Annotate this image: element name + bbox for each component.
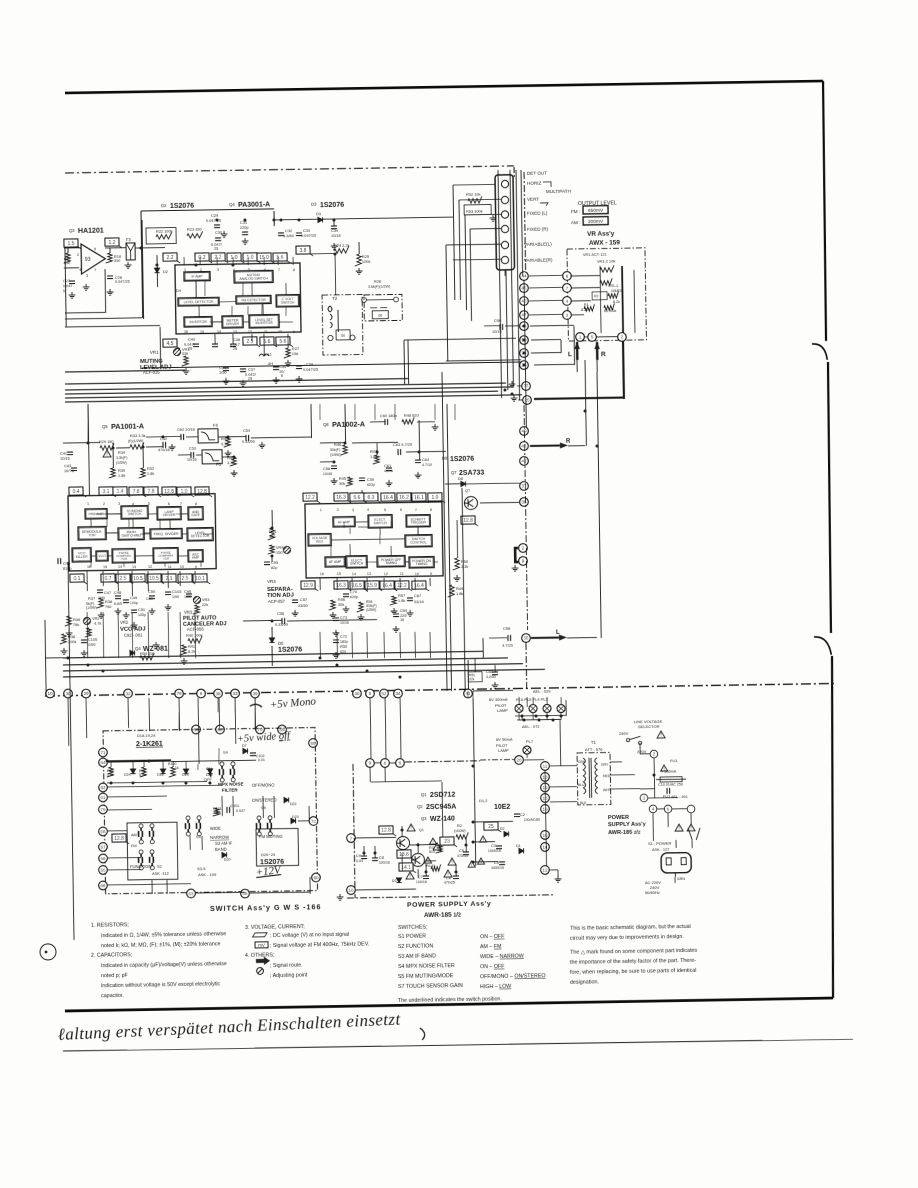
bracket vert	[540, 203, 548, 206]
svg-text:2SD712: 2SD712	[430, 792, 456, 799]
wire	[271, 510, 273, 528]
node 5	[366, 689, 375, 698]
svg-text:SWITCH: SWITCH	[373, 521, 387, 525]
wire	[287, 620, 377, 621]
wire	[298, 820, 309, 822]
voltage label 1.5	[64, 239, 81, 249]
pin wire	[86, 494, 88, 497]
svg-text:C27: C27	[63, 279, 70, 283]
wire ic internal	[212, 321, 222, 323]
diode D49	[207, 769, 212, 774]
node 69	[278, 725, 287, 734]
wire F3 out	[135, 247, 165, 249]
resistor R2 power	[456, 832, 468, 839]
svg-text:58: 58	[100, 829, 106, 834]
wire	[243, 619, 282, 622]
svg-text:4. OTHERS;: 4. OTHERS;	[245, 953, 275, 959]
voltage label 16.4	[412, 581, 429, 591]
svg-text:; DC voltage (V) at no input s: ; DC voltage (V) at no input signal	[270, 932, 349, 939]
svg-text:BLK: BLK	[580, 801, 587, 805]
ground	[511, 395, 518, 401]
wire lamp stub	[560, 697, 562, 705]
wire	[358, 242, 360, 254]
connector pin circle	[501, 225, 508, 232]
svg-text:16: 16	[400, 618, 404, 622]
capacitor C68	[508, 635, 511, 641]
node 79	[99, 805, 108, 814]
svg-text:ANALOG SWITCH: ANALOG SWITCH	[239, 276, 268, 280]
voltage label 12.8	[112, 834, 129, 844]
voltage label 2.5	[178, 574, 195, 584]
wire ic	[148, 513, 157, 515]
connector pin circle	[501, 256, 508, 263]
safety mark fuse	[661, 765, 668, 771]
diode D2	[154, 268, 159, 273]
capacitor C32	[278, 233, 284, 236]
wire	[571, 300, 591, 302]
wire	[320, 461, 334, 463]
spine below node 35	[525, 643, 528, 688]
resistor R38	[60, 634, 67, 644]
wire ic extra	[85, 277, 474, 772]
svg-text:39: 39	[252, 691, 258, 696]
wire	[455, 864, 457, 876]
wire	[571, 287, 600, 289]
wire lamp stub	[518, 697, 520, 705]
wire	[104, 269, 107, 313]
svg-text:ON – OFF: ON – OFF	[480, 964, 505, 970]
svg-text:FREQ. DIVIDER: FREQ. DIVIDER	[154, 532, 180, 536]
wire	[251, 334, 253, 341]
wire	[151, 880, 153, 894]
wire t1	[550, 765, 577, 767]
svg-text:C53: C53	[189, 446, 196, 451]
wire	[453, 258, 501, 261]
wire ic	[405, 561, 409, 563]
wire long vertical x462	[462, 488, 465, 691]
wire drop	[147, 612, 150, 658]
svg-text:1k: 1k	[175, 766, 179, 770]
node 20	[515, 756, 524, 765]
block ASC AMP	[188, 550, 203, 562]
voltage label 10.1	[193, 574, 210, 584]
svg-text:0.33/50: 0.33/50	[242, 439, 256, 444]
wire vertical x446	[446, 245, 448, 361]
wire ic	[108, 555, 112, 557]
svg-text:25: 25	[248, 376, 252, 381]
svg-text:16: 16	[87, 565, 91, 569]
svg-text:35: 35	[523, 636, 529, 641]
R53 box	[464, 205, 491, 215]
svg-text:14: 14	[118, 565, 122, 569]
svg-text:4.7/10: 4.7/10	[422, 463, 432, 467]
node 71	[99, 748, 108, 757]
svg-text:100/16: 100/16	[416, 880, 427, 884]
svg-text:R55: R55	[340, 644, 347, 649]
wire	[417, 421, 435, 423]
svg-text:22k: 22k	[469, 677, 475, 681]
svg-text:3: 3	[118, 502, 120, 506]
svg-text:3.1: 3.1	[103, 489, 110, 495]
wire	[117, 571, 119, 591]
wire to node 37	[466, 482, 520, 485]
wire y340 to node 50	[404, 338, 516, 340]
svg-text:20: 20	[516, 758, 522, 763]
svg-text:Q3: Q3	[69, 228, 75, 233]
svg-text:C6: C6	[446, 875, 451, 880]
svg-text:10: 10	[348, 888, 354, 893]
switch S1	[688, 828, 700, 840]
svg-text:TIMING: TIMING	[385, 561, 397, 565]
voltage label 2.2	[211, 253, 228, 263]
svg-text:R2: R2	[594, 294, 599, 298]
wire	[107, 856, 141, 859]
capacitor C54	[246, 435, 249, 441]
voltage label 1.2	[105, 238, 122, 248]
resistor R46	[341, 445, 348, 455]
voltage label 5.6	[350, 493, 367, 503]
pin wire	[147, 494, 149, 497]
svg-text:100/AC/80: 100/AC/80	[524, 818, 540, 822]
svg-text:PL7: PL7	[526, 739, 534, 744]
svg-text:VARIABLE(L): VARIABLE(L)	[524, 242, 552, 247]
svg-text:OFF/MONO: OFF/MONO	[252, 783, 275, 788]
bracket horiz	[543, 182, 551, 187]
ground	[273, 377, 280, 383]
node 7	[563, 284, 572, 293]
wire ic	[178, 555, 188, 557]
voltage label 16.4	[381, 493, 398, 503]
svg-text:650mV: 650mV	[588, 208, 604, 214]
svg-text:29: 29	[83, 691, 89, 696]
svg-text:Q2: Q2	[417, 804, 423, 809]
svg-text:2. CAPACITORS;: 2. CAPACITORS;	[91, 952, 132, 959]
svg-text:CONTROL: CONTROL	[410, 541, 427, 545]
svg-text:S7 TOUCH SENSOR GAIN: S7 TOUCH SENSOR GAIN	[398, 983, 463, 990]
wire node25 bold horizontal	[534, 398, 623, 399]
node 66	[192, 725, 201, 734]
wire node link	[529, 286, 563, 289]
svg-text:1.8k: 1.8k	[456, 591, 463, 596]
wire node41 up	[467, 660, 469, 690]
capacitor CH01	[227, 807, 230, 813]
svg-text:5.6: 5.6	[353, 495, 360, 501]
node 42	[520, 457, 529, 466]
svg-text:VR4: VR4	[267, 579, 276, 584]
svg-text:R59 330: R59 330	[140, 651, 156, 656]
svg-text:R: R	[601, 351, 606, 358]
wire	[369, 767, 371, 782]
svg-text:BLU: BLU	[578, 783, 585, 787]
svg-text:AF AMP: AF AMP	[338, 520, 351, 524]
svg-text:S1 POWER: S1 POWER	[398, 934, 426, 940]
svg-text:R33 3.3k: R33 3.3k	[130, 433, 146, 438]
svg-text:S3 AM IF BAND: S3 AM IF BAND	[398, 953, 436, 960]
svg-text:Q1: Q1	[421, 792, 427, 797]
wire	[406, 450, 446, 453]
resistor R56	[329, 600, 336, 610]
svg-text:R23 330: R23 330	[187, 227, 203, 232]
paper edge line below page	[63, 1039, 853, 1052]
wire t1 r	[610, 774, 635, 776]
node 43	[520, 442, 529, 451]
wire node link	[529, 313, 563, 316]
node 1	[576, 333, 585, 342]
svg-text:6: 6	[168, 502, 170, 506]
svg-text:56: 56	[100, 856, 106, 861]
svg-text:C8: C8	[379, 855, 384, 860]
svg-text:D18,19,24: D18,19,24	[137, 733, 156, 738]
svg-text:FM MUTING: FM MUTING	[259, 834, 283, 839]
wire	[116, 447, 130, 449]
svg-text:R: R	[566, 439, 571, 445]
svg-text:AMP: AMP	[192, 556, 200, 560]
svg-text:HA1201: HA1201	[78, 228, 104, 235]
wire	[107, 884, 191, 885]
svg-text:BAND: BAND	[215, 847, 227, 852]
block AF AMP 2	[325, 557, 345, 567]
wire	[189, 836, 191, 850]
resistor R42	[224, 437, 231, 447]
capacitor C64	[415, 460, 421, 463]
wire	[107, 868, 141, 871]
wire ic	[91, 555, 96, 557]
wire	[250, 891, 310, 894]
svg-text:0.2: 0.2	[199, 255, 206, 261]
ground	[333, 630, 340, 636]
voltage label 0.2	[195, 253, 212, 263]
svg-text:AM: AM	[131, 832, 137, 837]
wire	[132, 761, 134, 769]
svg-text:S1 ; POWER: S1 ; POWER	[648, 841, 672, 846]
node 10	[46, 689, 55, 698]
safety mark R29	[103, 450, 111, 457]
capacitor C31	[242, 232, 248, 235]
svg-text:11: 11	[264, 330, 268, 334]
svg-text:D20~23: D20~23	[261, 852, 276, 857]
wire	[584, 336, 588, 338]
capacitor C1	[667, 788, 670, 794]
node 77	[522, 382, 531, 391]
wire	[672, 808, 687, 810]
resistor VR3	[193, 605, 200, 614]
svg-text:42: 42	[521, 459, 527, 464]
diode D1 ps	[519, 848, 524, 853]
wire channel 1	[63, 651, 483, 658]
assembly boundary corner	[513, 167, 515, 177]
wire	[376, 443, 378, 455]
resistor R30	[109, 468, 116, 478]
block LEVEL SET INVERTOR	[249, 315, 279, 328]
block VOLTAGE REG	[308, 534, 331, 546]
svg-text:DRIVER: DRIVER	[163, 513, 176, 517]
pin wire	[216, 257, 218, 265]
svg-text:AF AMP: AF AMP	[329, 560, 342, 564]
block FM DETECTOR	[236, 295, 271, 304]
svg-text:DRIVER: DRIVER	[226, 322, 239, 326]
svg-text:AWR-185 1/2: AWR-185 1/2	[424, 911, 461, 919]
wire	[109, 248, 111, 253]
wire	[336, 578, 338, 590]
node 2	[519, 544, 528, 553]
svg-text:T1: T1	[591, 740, 597, 745]
wire drop	[218, 698, 220, 728]
svg-text:ON/STEREO: ON/STEREO	[252, 798, 277, 803]
capacitor C2	[514, 814, 520, 817]
svg-text:Q4: Q4	[229, 202, 235, 207]
resistor R54	[357, 602, 364, 612]
wire below node 32	[127, 698, 129, 728]
ground	[98, 612, 105, 618]
node sel 3	[640, 794, 648, 802]
wire op-amp to F3	[105, 247, 126, 249]
transistor Q2	[411, 853, 424, 866]
svg-text:8V 300mA: 8V 300mA	[489, 697, 508, 702]
wire vertical left of PA3001	[141, 211, 143, 318]
wire	[473, 861, 498, 863]
svg-text:2: 2	[337, 508, 339, 512]
capacitor C33	[296, 233, 302, 236]
wire node column ps	[545, 770, 547, 866]
wire	[548, 759, 550, 761]
svg-text:GRY: GRY	[601, 763, 609, 767]
wire	[221, 796, 223, 816]
svg-text:16.4: 16.4	[382, 583, 392, 589]
wire long vertical x442	[442, 372, 447, 691]
svg-text:10.5: 10.5	[133, 576, 143, 582]
resistor R1	[584, 304, 595, 311]
wire lamp stub	[532, 712, 534, 720]
wire	[526, 754, 528, 758]
svg-text:00: 00	[378, 314, 382, 318]
bold supply wire	[107, 760, 171, 761]
wire vertical x506	[506, 270, 508, 390]
capacitor C58	[331, 466, 337, 469]
wire	[195, 280, 197, 282]
resistor R48	[402, 417, 414, 424]
ground	[115, 608, 122, 614]
pilot lamp	[515, 704, 523, 712]
pin wire	[194, 494, 196, 497]
capacitor C6	[453, 876, 459, 879]
svg-text:C48: C48	[114, 590, 121, 595]
resistor R43	[230, 456, 237, 466]
svg-text:8: 8	[293, 268, 295, 272]
svg-text:IF AMP: IF AMP	[191, 275, 203, 279]
wire	[482, 638, 484, 658]
block ST/MONO SWITCH	[121, 506, 148, 519]
wire	[171, 760, 256, 761]
wire	[159, 327, 162, 369]
node 29	[82, 689, 91, 698]
svg-text:!: !	[678, 826, 679, 832]
wire	[334, 254, 337, 295]
svg-text:12.2: 12.2	[305, 495, 315, 501]
svg-text:25: 25	[488, 824, 494, 830]
svg-text:52: 52	[381, 691, 387, 696]
wire	[356, 836, 396, 839]
resistor VR2	[85, 628, 92, 637]
capacitor C66	[500, 324, 503, 330]
svg-text:POWER: POWER	[608, 815, 629, 821]
ground	[285, 360, 292, 366]
svg-text:D3: D3	[311, 202, 317, 207]
svg-text:6: 6	[281, 373, 283, 378]
capacitor C28	[107, 276, 113, 279]
svg-text:3.8: 3.8	[300, 248, 307, 254]
svg-text:510: 510	[429, 850, 435, 854]
block VCO	[96, 551, 108, 561]
svg-text:16: 16	[542, 833, 548, 838]
svg-text:2-1K261: 2-1K261	[136, 741, 163, 748]
svg-text:1.5: 1.5	[67, 241, 74, 247]
wire	[568, 445, 585, 447]
wire	[271, 627, 273, 638]
ground	[343, 606, 350, 612]
wire	[102, 571, 104, 586]
AM level box	[583, 217, 608, 225]
svg-text:C9: C9	[356, 853, 361, 858]
svg-text:D5: D5	[278, 641, 284, 646]
capacitor C30	[215, 238, 221, 241]
wire lamp bus 2	[517, 718, 560, 721]
svg-text:R40 100k: R40 100k	[186, 633, 203, 638]
wire	[505, 325, 519, 327]
svg-text:100p: 100p	[130, 601, 138, 605]
block IF AMP	[184, 272, 210, 281]
svg-text:7.8: 7.8	[133, 489, 140, 495]
svg-text:L: L	[556, 630, 560, 636]
node 8	[381, 759, 390, 768]
svg-text:MULTIPATH: MULTIPATH	[546, 189, 571, 194]
wire vertical x88	[88, 404, 89, 496]
svg-text:0.047/25: 0.047/25	[301, 233, 316, 238]
svg-text:C58: C58	[323, 466, 330, 471]
switch assembly dashed box	[103, 728, 318, 894]
wire	[273, 211, 275, 226]
svg-text:0.7: 0.7	[104, 576, 111, 582]
wire	[287, 334, 289, 348]
wire drop	[86, 612, 89, 658]
wire drop	[336, 632, 338, 658]
connector pin circle	[501, 241, 508, 248]
wire	[417, 869, 419, 878]
svg-text:D24: D24	[124, 773, 131, 777]
wire ic	[379, 528, 381, 535]
diode D2 ps	[504, 831, 509, 836]
R26 network	[362, 298, 367, 303]
node 56	[99, 854, 108, 863]
switch S2b	[138, 850, 154, 870]
svg-text:PL6 PL5 PL4 PL3: PL6 PL5 PL4 PL3	[516, 696, 549, 702]
svg-text:SWITCH: SWITCH	[350, 562, 364, 566]
assembly dash-dot spine	[524, 172, 526, 272]
wire node link	[529, 274, 563, 277]
resistor R2	[604, 303, 615, 310]
svg-text:D3: D3	[316, 211, 321, 216]
wire node28 loop	[531, 352, 561, 354]
resistor R41	[180, 645, 187, 655]
svg-text:T 500mA: T 500mA	[661, 770, 677, 774]
pilot lamp	[543, 704, 551, 712]
svg-text:C60 180p: C60 180p	[380, 413, 397, 418]
svg-text:WHT: WHT	[603, 788, 611, 792]
svg-text:12: 12	[148, 565, 152, 569]
wire ic internal	[219, 301, 236, 303]
transformer T1 windings	[583, 758, 598, 798]
svg-text:10/16: 10/16	[60, 456, 70, 461]
wire	[107, 795, 167, 798]
